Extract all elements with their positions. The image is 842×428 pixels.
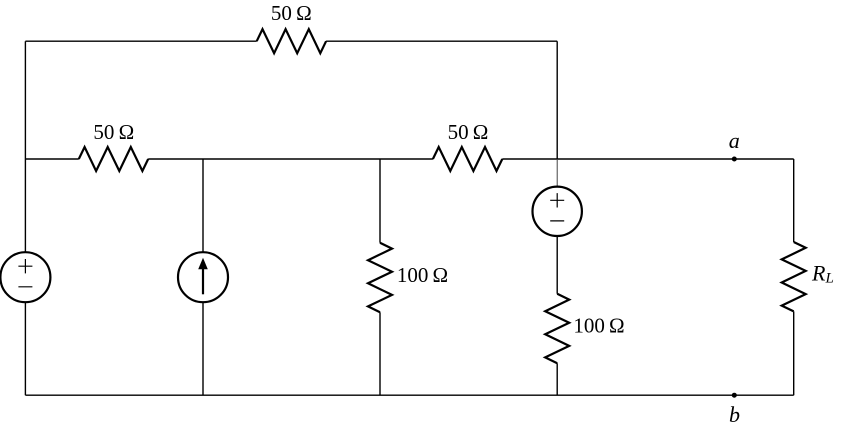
svg-text:50 Ω: 50 Ω bbox=[93, 120, 134, 144]
svg-text:50 Ω: 50 Ω bbox=[271, 1, 312, 25]
svg-text:50 Ω: 50 Ω bbox=[448, 120, 489, 144]
svg-text:100 Ω: 100 Ω bbox=[397, 263, 448, 287]
svg-text:a: a bbox=[729, 128, 740, 153]
svg-text:b: b bbox=[729, 402, 740, 427]
svg-text:100 Ω: 100 Ω bbox=[573, 313, 624, 337]
